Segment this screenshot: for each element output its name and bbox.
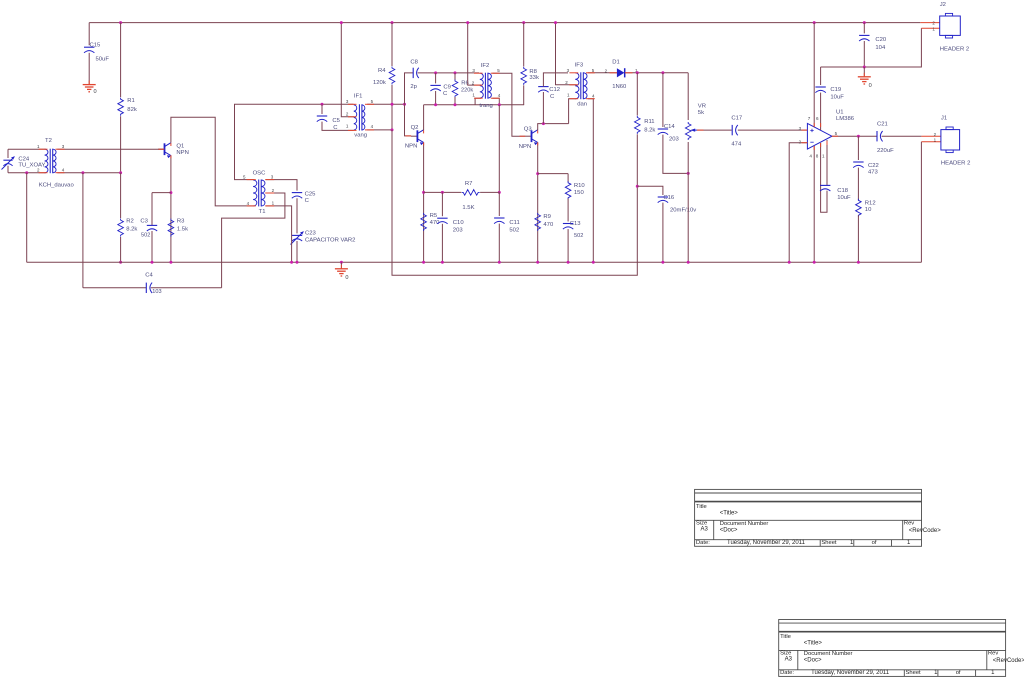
svg-text:C19: C19 [830,87,841,93]
svg-text:5k: 5k [698,110,704,116]
svg-text:C3: C3 [140,218,148,224]
svg-text:8.2k: 8.2k [644,127,655,133]
svg-text:C4: C4 [145,273,153,279]
node T2 pin2 to ground rail [25,171,28,174]
wire IF2 pin4 drop [492,98,499,105]
svg-text:203: 203 [669,137,680,143]
svg-text:Sheet: Sheet [821,540,837,546]
svg-text:Title: Title [780,634,791,640]
transformer T1 OSC [253,180,257,206]
capacitor C11 [494,217,504,219]
transformer T2 [45,149,48,173]
svg-text:C13: C13 [570,221,582,227]
svg-text:C: C [443,91,448,97]
capacitor C14 [662,73,664,127]
svg-text:of: of [956,670,961,676]
svg-text:C14: C14 [664,124,676,130]
resistor R8 [522,21,525,24]
svg-text:502: 502 [574,233,583,239]
connector J1 HEADER 2 [941,130,960,150]
node R11 bottom / AGC / C16 junction [636,185,639,188]
resistor R10 [567,174,569,182]
svg-text:R11: R11 [644,119,654,125]
svg-text:Document Number: Document Number [720,521,769,527]
svg-text:C: C [550,94,555,100]
svg-text:C15: C15 [90,43,102,49]
wire AGC line [392,130,637,275]
wire U1 pin6 Vplus to rail [813,21,816,24]
node R4 junction top rail [391,21,394,24]
svg-text:IF1: IF1 [354,93,363,99]
wire Q1 collector route to T1 pin4 [171,117,247,206]
title block upper [695,489,922,546]
svg-text:J2: J2 [940,2,946,8]
wire Q3 collector riser [538,124,569,131]
svg-text:33k: 33k [529,75,539,81]
svg-text:C12: C12 [549,87,560,93]
svg-text:R3: R3 [177,218,185,224]
svg-text:C: C [305,198,310,204]
capacitor C10 [441,192,443,216]
node Q2 base junction [403,103,406,106]
svg-text:8: 8 [816,154,819,159]
svg-text:2p: 2p [410,84,417,90]
transistor Q1 NPN [158,148,165,150]
capacitor C20 [863,23,865,34]
transistor Q2 NPN [411,135,418,137]
svg-text:<RevCode>: <RevCode> [909,528,942,534]
svg-text:OSC: OSC [253,171,267,177]
wire T2 pin3 to Q1 base [57,148,164,150]
capacitor C4 [83,287,146,289]
wire T1 pin5 riser to IF1 row [235,104,354,179]
svg-text:VR: VR [698,104,706,110]
wire J1 pin1 to ground rail [921,141,941,143]
wire IF2 pin5 to Q3 base [492,73,525,136]
svg-text:1N60: 1N60 [612,84,627,90]
svg-text:C22: C22 [868,163,879,169]
wire Q3 emitter [537,142,539,262]
svg-text:82k: 82k [127,107,137,113]
svg-text:R7: R7 [465,181,473,187]
node C5 junction [321,103,324,106]
capacitor C13 [563,223,573,225]
node C12 bottom junction [542,122,545,125]
resistor R4 [391,23,393,66]
svg-text:Title: Title [696,504,707,510]
svg-text:470: 470 [543,222,554,228]
capacitor C16 [658,196,668,198]
wire Q1 emitter [170,155,172,262]
svg-text:dan: dan [577,102,587,108]
svg-text:1.5K: 1.5K [462,205,474,211]
svg-text:0: 0 [869,83,872,89]
capacitor C12 [542,92,544,124]
node Q1 emitter / C3 junction [169,191,172,194]
svg-text:CAPACITOR VAR2: CAPACITOR VAR2 [305,237,355,243]
svg-text:C23: C23 [305,231,317,237]
svg-text:J1: J1 [941,116,947,122]
wire C8 to IF2 row [418,72,479,74]
svg-text:NPN: NPN [519,144,531,150]
diode D1 1N60 [617,68,625,77]
svg-text:Tuesday, November 29, 2011: Tuesday, November 29, 2011 [811,670,890,676]
wire C17 to U1 pin3 [738,129,808,131]
svg-text:C: C [333,125,338,131]
svg-text:A3: A3 [785,656,793,662]
svg-text:220uF: 220uF [877,148,894,154]
capacitor C25 [292,192,302,194]
transformer IF3 dan [575,73,579,99]
svg-text:NPN: NPN [405,143,417,149]
op-amp U1 LM386 [807,123,832,149]
wire C4 row riser to T1 pin2 route [222,193,285,288]
node output junction [857,135,860,138]
resistor R2 [120,173,122,219]
wire IF2 pin2 tap to rail [468,23,481,86]
svg-text:1: 1 [822,154,825,159]
wire C24 left branch [7,149,9,158]
wire IF3 pin5 to D1 [588,72,618,74]
capacitor C3 [151,193,153,226]
svg-text:TU_XOAY: TU_XOAY [18,162,45,168]
svg-text:103: 103 [152,289,161,295]
wire Q2 collector riser [423,105,425,130]
svg-text:C25: C25 [305,191,317,197]
svg-text:Q2: Q2 [411,125,419,131]
potentiometer VR 5k [687,73,689,120]
ground 0 mid rail [340,261,343,264]
svg-text:10uF: 10uF [837,195,851,201]
svg-text:4: 4 [809,154,812,159]
svg-text:C8: C8 [410,59,418,65]
resistor R9 [535,213,541,231]
svg-text:502: 502 [141,233,150,239]
svg-text:U1: U1 [836,110,844,116]
wire T2 pin1 row [8,148,46,150]
node VR bottom junction [687,172,690,175]
wire IF3 pin2 tap to rail [556,23,577,85]
transformer IF1 vang [354,105,357,130]
wire detector node [625,72,688,74]
svg-text:IF3: IF3 [575,62,584,68]
wire IF2 pin1 drop [475,98,481,105]
svg-text:0: 0 [94,89,97,95]
resistor R7 [424,191,462,193]
wire wiper to C17 [697,129,732,131]
wire IF3 pin4 to ground [588,99,594,263]
svg-text:8.2k: 8.2k [126,227,137,233]
resistor R1 [120,23,122,98]
svg-text:C20: C20 [875,37,887,43]
svg-text:T1: T1 [259,209,266,215]
resistor R3 [168,219,174,237]
wire T1 pin1 to ground [266,192,270,194]
node R1/R2 bias junction [119,171,122,174]
svg-text:50uF: 50uF [96,57,110,63]
svg-text:C17: C17 [731,116,742,122]
wire IF1 pin2 tap to rail [341,23,354,117]
svg-text:Date:: Date: [696,540,710,546]
svg-text:LM386: LM386 [836,116,855,122]
resistor R5 [421,213,427,231]
svg-text:Q1: Q1 [176,144,184,150]
svg-text:120k: 120k [373,80,386,86]
capacitor C24 TU_XOAY [3,159,12,161]
svg-text:<Title>: <Title> [720,510,739,516]
wire T1 pin4 stub [247,205,255,207]
wire IF1 pin5 row [367,103,404,105]
svg-text:R2: R2 [126,218,134,224]
svg-text:C9: C9 [443,85,451,91]
svg-text:C21: C21 [877,122,888,128]
svg-text:0: 0 [345,275,348,281]
svg-text:R12: R12 [865,200,876,206]
svg-text:IF2: IF2 [481,63,490,69]
svg-text:Rev: Rev [988,651,998,657]
svg-text:D1: D1 [612,60,620,66]
svg-text:A3: A3 [701,526,709,532]
wire Q2 emitter [423,142,425,262]
capacitor C21 [876,131,878,141]
svg-text:<RevCode>: <RevCode> [993,658,1024,664]
wire T2 pin2 row [8,172,46,174]
svg-text:1.5k: 1.5k [177,227,188,233]
svg-text:7: 7 [808,116,811,121]
node R7 left junction [422,191,425,194]
wire C21 to J1 [882,135,922,137]
wire T1 pin3 branch [266,180,297,191]
wire Q2 collector row [424,104,524,106]
node C14 top [661,71,664,74]
svg-text:Tuesday, November 29, 2011: Tuesday, November 29, 2011 [727,540,806,546]
wire U1 pin4 to ground [813,146,815,262]
resistor R12 [856,199,862,217]
wire C11/R7 riser [498,105,500,193]
wire U1 pin2 feedback to ground [789,143,807,263]
svg-text:<Doc>: <Doc> [804,658,822,664]
svg-text:R5: R5 [430,213,438,219]
ground 0 below C15 [83,84,96,86]
svg-text:10uF: 10uF [830,94,844,100]
node C10 top [441,191,444,194]
resistor R6 [454,73,456,80]
svg-text:R1: R1 [127,98,135,104]
node R11 top [636,71,639,74]
svg-text:Rev: Rev [904,521,914,527]
svg-text:502: 502 [509,228,519,234]
svg-text:Q3: Q3 [524,127,533,133]
capacitor C23 CAPACITOR VAR2 [292,234,302,236]
svg-text:of: of [872,540,877,546]
node Q3 emitter / R10 junction [536,172,539,175]
svg-text:NPN: NPN [176,150,188,156]
capacitor C18 gain pins [821,143,827,212]
svg-text:150: 150 [574,190,585,196]
transformer IF2 trang [480,73,484,98]
wire IF1 pin4 row [367,129,392,131]
capacitor C15 [84,46,94,48]
svg-text:C11: C11 [509,220,519,226]
wire Vcc top rail [89,22,920,24]
svg-text:T2: T2 [45,138,52,144]
wire U1 output [832,135,877,137]
node R4/IF1 pin5 junction [391,103,394,106]
wire T2 pin4 row [57,172,120,174]
capacitor C22 [857,136,859,160]
node R6 top [454,71,457,74]
node C20 bottom junction [863,66,866,69]
title block lower [779,620,1006,677]
svg-text:Document Number: Document Number [804,651,853,657]
capacitor C8 [412,68,414,78]
svg-text:<Doc>: <Doc> [720,528,738,534]
svg-text:6: 6 [816,116,819,121]
wire C8 branch [405,73,414,104]
svg-text:C16: C16 [663,195,675,201]
svg-text:HEADER 2: HEADER 2 [941,161,970,167]
svg-text:Sheet: Sheet [906,670,922,676]
svg-text:C10: C10 [453,220,465,226]
svg-text:HEADER 2: HEADER 2 [940,47,969,53]
svg-text:R4: R4 [378,68,386,74]
wire J2 pin2 stub [920,22,939,24]
connector J2 HEADER 2 [940,16,961,35]
node C4 drop junction [81,171,84,174]
svg-text:10: 10 [865,207,872,213]
svg-text:KCH_dauvao: KCH_dauvao [39,182,75,188]
capacitor C5 [321,104,323,114]
svg-text:20mF/10v: 20mF/10v [670,208,696,214]
svg-text:R10: R10 [574,183,586,189]
svg-text:C5: C5 [332,118,340,124]
svg-text:203: 203 [453,228,464,234]
wire IF3 pin1 drop [569,99,577,124]
node junction R1 top [119,21,122,24]
transistor Q3 NPN [525,135,532,137]
ground 0 top right [863,67,865,76]
capacitor C19 on pin7 [820,67,822,85]
red pin stubs [39,148,48,150]
svg-text:Date:: Date: [780,670,794,676]
node C9 top [434,71,437,74]
svg-text:<Title>: <Title> [804,641,823,647]
svg-text:474: 474 [731,141,742,147]
svg-text:trang: trang [479,103,492,109]
resistor R11 [636,73,638,116]
svg-text:104: 104 [875,45,886,51]
svg-text:C18: C18 [837,188,849,194]
wire J2 pin1 ground line [821,28,922,67]
svg-text:473: 473 [868,169,879,175]
node C20 top [863,21,866,24]
svg-text:vang: vang [354,133,367,139]
wire Q2 base riser [405,104,412,136]
svg-text:R9: R9 [543,214,551,220]
wire ground rail [27,261,922,263]
wire C15 branch [88,23,90,46]
capacitor C17 [731,125,733,135]
capacitor C9 [435,73,437,84]
